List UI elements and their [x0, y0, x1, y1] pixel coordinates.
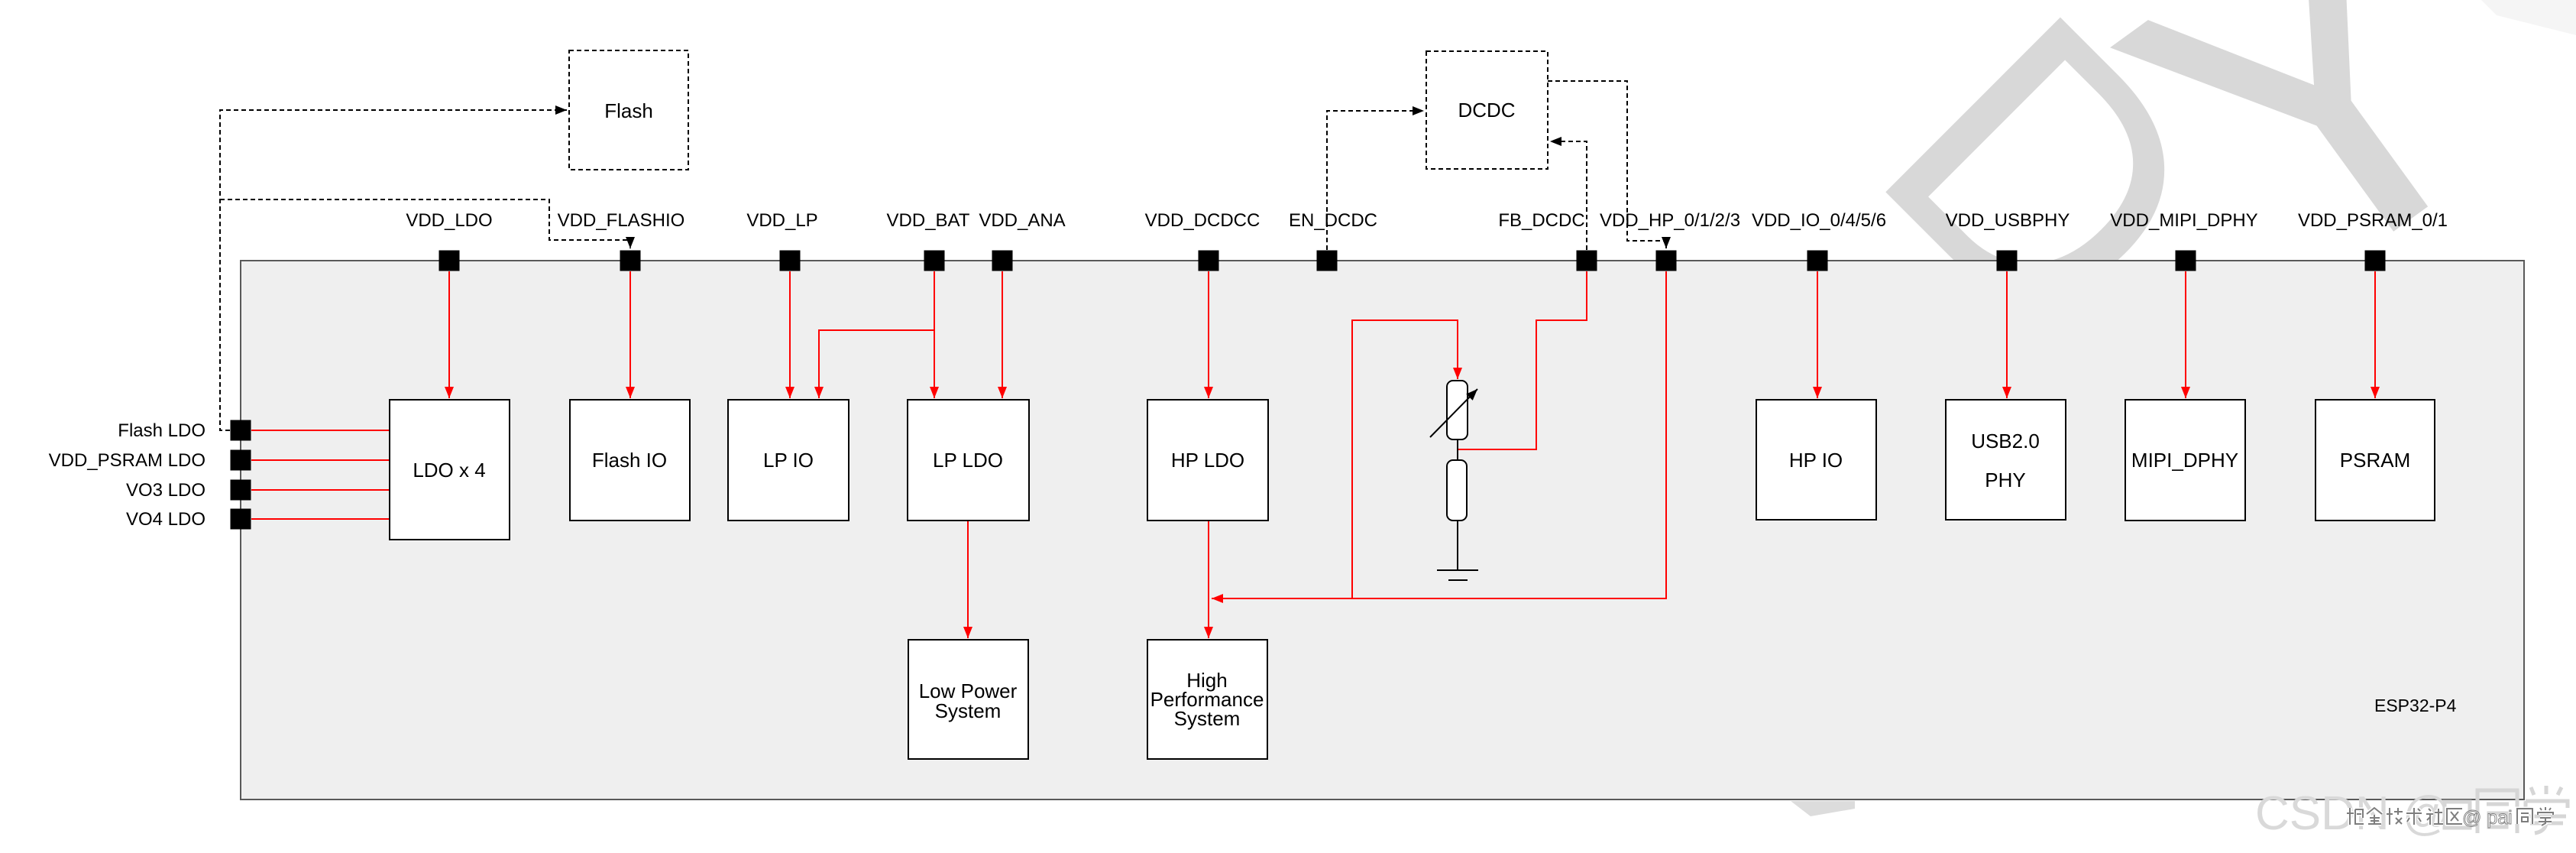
wire DCDC output to VDD_HP_0/1/2/3 pin (dashed)	[1548, 81, 1666, 248]
svg-text:VDD_HP_0/1/2/3: VDD_HP_0/1/2/3	[1600, 210, 1740, 231]
svg-text:System: System	[935, 699, 1002, 722]
block LP IO	[728, 400, 849, 521]
svg-text:VDD_DCDCC: VDD_DCDCC	[1145, 210, 1260, 231]
svg-text:HP LDO: HP LDO	[1171, 449, 1244, 472]
block High Performance System	[1147, 640, 1267, 759]
svg-text:HP IO: HP IO	[1789, 449, 1843, 472]
wire resistor bottom to ground	[1457, 521, 1458, 569]
pin VDD_LP	[780, 251, 801, 271]
wire LP LDO to Low Power System	[967, 521, 969, 638]
block MIPI_DPHY	[2125, 400, 2245, 521]
pins	[231, 251, 2386, 530]
svg-text:LP LDO: LP LDO	[933, 449, 1003, 472]
svg-text:VDD_ANA: VDD_ANA	[979, 210, 1065, 231]
wire VDD_BAT branch to LP IO	[819, 330, 934, 398]
block external DCDC (dashed)	[1426, 51, 1548, 169]
block Low Power System	[908, 640, 1028, 759]
pin VDD_LDO	[439, 251, 460, 271]
svg-text:VDD_LP: VDD_LP	[746, 210, 817, 231]
block LDO x 4	[390, 400, 510, 540]
wire Flash LDO pin to external Flash (dashed)	[220, 110, 567, 430]
wire VDD_DCDCC to HP LDO	[1208, 271, 1209, 398]
variable resistor arrow	[1430, 389, 1477, 437]
wire FB_DCDC to divider midpoint	[1458, 271, 1587, 449]
svg-text:VDD_PSRAM LDO: VDD_PSRAM LDO	[49, 450, 205, 471]
wire VDD_PSRAM LDO pin to LDO x 4	[251, 459, 390, 461]
wire VO4 LDO pin to LDO x 4	[251, 518, 390, 520]
wire VDD_HP_0/1/2/3 down and left to HP system net	[1212, 271, 1666, 598]
svg-text:VDD_PSRAM_0/1: VDD_PSRAM_0/1	[2298, 210, 2448, 231]
block USB2.0 PHY	[1946, 400, 2066, 520]
wire pot bottom to resistor top	[1457, 438, 1458, 460]
wire VDD_LDO to LDO x 4	[448, 271, 450, 398]
block HP LDO	[1147, 400, 1268, 521]
wire net to variable resistor top	[1352, 320, 1458, 598]
resistor body	[1447, 460, 1467, 521]
wire VDD_ANA to LP LDO	[1002, 271, 1003, 398]
svg-text:VDD_LDO: VDD_LDO	[406, 210, 492, 231]
wire VDD_MIPI_DPHY to MIPI_DPHY	[2185, 271, 2186, 398]
block PSRAM	[2315, 400, 2435, 521]
svg-text:LP IO: LP IO	[763, 449, 814, 472]
wire dashed branch to VDD_FLASHIO pin	[220, 199, 630, 248]
wire HP LDO to High Performance System	[1208, 521, 1209, 638]
svg-text:ESP32-P4: ESP32-P4	[2374, 696, 2457, 715]
watermark layer	[1791, 0, 2576, 816]
pin Flash LDO	[231, 420, 251, 441]
pin VDD_MIPI_DPHY	[2176, 251, 2196, 271]
svg-text:VO4 LDO: VO4 LDO	[126, 509, 205, 530]
svg-text:MIPI_DPHY: MIPI_DPHY	[2131, 449, 2238, 472]
block Flash IO	[570, 400, 690, 521]
pin VDD_BAT	[924, 251, 945, 271]
svg-text:Flash: Flash	[604, 99, 653, 122]
bottom watermark	[2255, 786, 2568, 840]
pin VO3 LDO	[231, 480, 251, 501]
pin VDD_DCDCC	[1199, 251, 1219, 271]
wire VDD_LP to LP IO	[789, 271, 791, 398]
svg-text:VO3 LDO: VO3 LDO	[126, 480, 205, 501]
wire VO3 LDO pin to LDO x 4	[251, 489, 390, 491]
resistor network	[1430, 381, 1478, 580]
wire VDD_FLASHIO to Flash IO	[629, 271, 631, 398]
wire VDD_BAT to LP LDO	[934, 271, 935, 398]
svg-text:FB_DCDC: FB_DCDC	[1498, 210, 1584, 231]
svg-text:VDD_IO_0/4/5/6: VDD_IO_0/4/5/6	[1752, 210, 1886, 231]
wire VDD_USBPHY to USB2.0 PHY	[2006, 271, 2008, 398]
pin VDD_HP_0/1/2/3	[1656, 251, 1677, 271]
svg-text:VDD_MIPI_DPHY: VDD_MIPI_DPHY	[2110, 210, 2257, 231]
svg-text:LDO x 4: LDO x 4	[413, 459, 485, 482]
pin EN_DCDC	[1317, 251, 1338, 271]
pin VDD_PSRAM LDO	[231, 450, 251, 471]
svg-text:VDD_USBPHY: VDD_USBPHY	[1946, 210, 2070, 231]
variable resistor (feedback pot) body	[1447, 381, 1468, 439]
svg-text:PSRAM: PSRAM	[2340, 449, 2410, 472]
svg-text:VDD_BAT: VDD_BAT	[887, 210, 970, 231]
svg-text:Flash IO: Flash IO	[592, 449, 667, 472]
chip body ESP32-P4	[241, 261, 2524, 799]
svg-text:USB2.0: USB2.0	[1971, 430, 2040, 452]
svg-text:System: System	[1174, 707, 1241, 730]
wire VDD_IO_0/4/5/6 to HP IO	[1817, 271, 1818, 398]
block external Flash (dashed)	[569, 50, 688, 170]
pin VDD_FLASHIO	[620, 251, 641, 271]
pin VDD_PSRAM_0/1	[2365, 251, 2386, 271]
pin FB_DCDC	[1577, 251, 1597, 271]
pin VDD_IO_0/4/5/6	[1807, 251, 1828, 271]
ground	[1437, 570, 1478, 580]
blocks	[390, 50, 2435, 759]
svg-text:DCDC: DCDC	[1458, 99, 1515, 122]
svg-text:PHY: PHY	[1985, 469, 2025, 491]
block LP LDO	[908, 400, 1029, 521]
wire FB_DCDC to DCDC (dashed)	[1550, 141, 1587, 250]
svg-text:VDD_FLASHIO: VDD_FLASHIO	[558, 210, 685, 231]
svg-text:EN_DCDC: EN_DCDC	[1289, 210, 1377, 231]
pin VDD_USBPHY	[1997, 251, 2018, 271]
svg-text:@ pai: @ pai	[2462, 807, 2513, 829]
svg-text:Flash LDO: Flash LDO	[118, 420, 205, 441]
wire Flash LDO pin to LDO x 4	[251, 430, 390, 431]
pin VDD_ANA	[992, 251, 1013, 271]
wires layer	[220, 81, 2375, 638]
block HP IO	[1756, 400, 1876, 520]
wire VDD_PSRAM_0/1 to PSRAM	[2374, 271, 2376, 398]
wire EN_DCDC to DCDC (dashed)	[1327, 111, 1424, 250]
pin VO4 LDO	[231, 509, 251, 530]
